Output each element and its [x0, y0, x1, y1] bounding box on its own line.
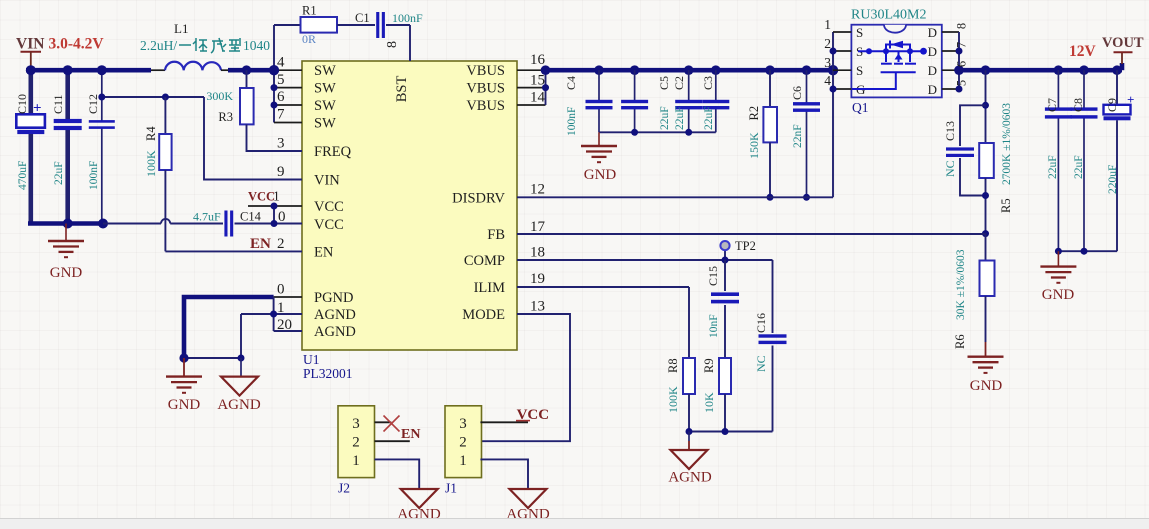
svg-text:PL32001: PL32001 — [303, 366, 353, 381]
svg-text:2: 2 — [459, 435, 467, 451]
svg-text:VOUT: VOUT — [1102, 35, 1144, 51]
svg-text:C8: C8 — [1071, 98, 1085, 112]
svg-text:7: 7 — [277, 107, 285, 123]
svg-text:VBUS: VBUS — [466, 81, 505, 97]
svg-text:AGND: AGND — [314, 324, 356, 340]
svg-text:NC: NC — [943, 160, 957, 177]
svg-text:D: D — [928, 25, 937, 40]
svg-text:TP2: TP2 — [735, 239, 756, 253]
svg-text:GND: GND — [584, 167, 617, 183]
svg-text:150K: 150K — [747, 132, 761, 159]
svg-text:COMP: COMP — [464, 253, 505, 269]
svg-text:C16: C16 — [754, 313, 768, 333]
svg-text:2: 2 — [824, 36, 831, 51]
svg-text:VBUS: VBUS — [466, 98, 505, 114]
svg-text:470uF: 470uF — [17, 161, 29, 190]
svg-text:220uF: 220uF — [1107, 165, 1119, 194]
svg-text:13: 13 — [530, 299, 545, 315]
svg-text:22uF: 22uF — [1073, 155, 1085, 179]
svg-text:7: 7 — [955, 42, 969, 48]
svg-text:5: 5 — [277, 72, 285, 88]
svg-text:DISDRV: DISDRV — [452, 190, 505, 206]
svg-text:10K: 10K — [702, 392, 716, 413]
svg-text:VCC: VCC — [314, 199, 344, 215]
svg-text:100nF: 100nF — [88, 161, 100, 190]
svg-text:+: + — [1127, 92, 1134, 107]
svg-text:100nF: 100nF — [392, 11, 423, 25]
svg-text:+: + — [33, 101, 42, 117]
svg-text:AGND: AGND — [314, 307, 356, 323]
svg-text:0R: 0R — [302, 32, 316, 46]
svg-text:S: S — [856, 25, 863, 40]
svg-text:AGND: AGND — [217, 397, 260, 413]
svg-text:22uF: 22uF — [53, 161, 65, 185]
svg-text:SW: SW — [314, 116, 336, 132]
svg-text:3.0-4.2V: 3.0-4.2V — [49, 36, 105, 53]
svg-text:300K: 300K — [206, 89, 233, 103]
svg-text:100K: 100K — [666, 386, 680, 413]
svg-text:VIN: VIN — [16, 36, 44, 53]
svg-text:GND: GND — [168, 397, 201, 413]
svg-text:NC: NC — [754, 355, 768, 372]
svg-text:2: 2 — [352, 435, 360, 451]
svg-text:9: 9 — [277, 164, 285, 180]
svg-text:C12: C12 — [86, 94, 100, 114]
svg-text:2700K ±1%/0603: 2700K ±1%/0603 — [1001, 103, 1013, 185]
svg-text:C14: C14 — [240, 210, 262, 224]
svg-text:30K ±1%/0603: 30K ±1%/0603 — [955, 249, 967, 320]
svg-text:EN: EN — [314, 244, 334, 260]
svg-text:R2: R2 — [747, 106, 761, 121]
svg-text:SW: SW — [314, 98, 336, 114]
svg-text:R8: R8 — [666, 358, 680, 373]
svg-text:8: 8 — [385, 41, 400, 48]
svg-text:R9: R9 — [702, 358, 716, 373]
svg-text:22uF: 22uF — [659, 106, 671, 130]
svg-text:C3: C3 — [701, 76, 715, 90]
svg-text:C2: C2 — [672, 76, 686, 90]
svg-text:EN: EN — [401, 427, 420, 442]
svg-text:6: 6 — [955, 61, 969, 67]
svg-text:3: 3 — [277, 136, 285, 152]
svg-text:100K: 100K — [144, 150, 158, 177]
svg-text:C13: C13 — [943, 121, 957, 141]
svg-text:3: 3 — [352, 416, 360, 432]
svg-text:PGND: PGND — [314, 290, 353, 306]
svg-text:FREQ: FREQ — [314, 144, 352, 160]
svg-text:D: D — [928, 63, 937, 78]
svg-text:VCC: VCC — [314, 217, 344, 233]
svg-text:D: D — [928, 82, 937, 97]
svg-text:FB: FB — [487, 227, 505, 243]
svg-text:D: D — [928, 44, 937, 59]
svg-text:2.2uH/: 2.2uH/ — [140, 38, 177, 53]
svg-text:SW: SW — [314, 63, 336, 79]
svg-text:R4: R4 — [144, 126, 158, 141]
svg-text:C10: C10 — [15, 94, 29, 114]
svg-text:BST: BST — [394, 76, 410, 103]
svg-text:R6: R6 — [953, 334, 967, 349]
svg-text:EN: EN — [250, 236, 271, 252]
svg-text:5: 5 — [955, 80, 969, 86]
svg-text:C15: C15 — [706, 266, 720, 286]
svg-text:14: 14 — [530, 90, 546, 106]
svg-text:6: 6 — [277, 89, 285, 105]
svg-text:2: 2 — [277, 236, 285, 252]
svg-text:1: 1 — [352, 453, 360, 469]
svg-text:R3: R3 — [218, 110, 233, 124]
svg-text:4: 4 — [824, 73, 831, 88]
svg-text:10nF: 10nF — [708, 314, 720, 338]
svg-text:C11: C11 — [51, 94, 65, 114]
svg-text:16: 16 — [530, 52, 546, 68]
svg-text:8: 8 — [955, 23, 969, 29]
svg-text:Q1: Q1 — [852, 100, 869, 115]
svg-text:AGND: AGND — [668, 470, 711, 486]
svg-text:18: 18 — [530, 245, 545, 261]
svg-text:J1: J1 — [445, 481, 457, 496]
svg-text:R5: R5 — [999, 198, 1013, 213]
svg-text:U1: U1 — [303, 352, 320, 367]
svg-text:22uF: 22uF — [674, 106, 686, 130]
svg-text:C1: C1 — [355, 11, 370, 25]
svg-text:12: 12 — [530, 181, 545, 197]
svg-text:0: 0 — [277, 282, 285, 298]
svg-text:100nF: 100nF — [566, 107, 578, 136]
svg-text:VIN: VIN — [314, 173, 340, 189]
svg-text:VCC: VCC — [248, 190, 275, 204]
svg-text:GND: GND — [1042, 287, 1075, 303]
svg-text:22uF: 22uF — [703, 106, 715, 130]
svg-text:1040: 1040 — [243, 38, 270, 53]
svg-text:C7: C7 — [1045, 98, 1059, 112]
svg-text:22nF: 22nF — [792, 124, 804, 148]
svg-text:J2: J2 — [338, 481, 350, 496]
svg-text:ILIM: ILIM — [474, 280, 506, 296]
svg-text:C6: C6 — [790, 86, 804, 100]
svg-text:19: 19 — [530, 271, 545, 287]
svg-text:12V: 12V — [1069, 43, 1097, 60]
svg-text:1: 1 — [824, 17, 831, 32]
svg-text:22uF: 22uF — [1047, 155, 1059, 179]
svg-text:GND: GND — [970, 378, 1003, 394]
svg-text:3: 3 — [824, 55, 831, 70]
svg-text:C9: C9 — [1105, 98, 1119, 112]
svg-text:C4: C4 — [564, 76, 578, 90]
svg-text:RU30L40M2: RU30L40M2 — [851, 8, 926, 23]
svg-text:GND: GND — [50, 265, 83, 281]
svg-text:4.7uF: 4.7uF — [193, 210, 221, 224]
svg-text:L1: L1 — [174, 21, 188, 36]
svg-text:C5: C5 — [657, 76, 671, 90]
svg-text:1: 1 — [273, 189, 280, 204]
svg-text:MODE: MODE — [462, 307, 505, 323]
svg-text:17: 17 — [530, 219, 546, 235]
svg-text:S: S — [856, 63, 863, 78]
svg-text:R1: R1 — [302, 4, 317, 18]
svg-text:VBUS: VBUS — [466, 63, 505, 79]
svg-text:1: 1 — [459, 453, 467, 469]
svg-text:3: 3 — [459, 416, 467, 432]
svg-text:SW: SW — [314, 81, 336, 97]
